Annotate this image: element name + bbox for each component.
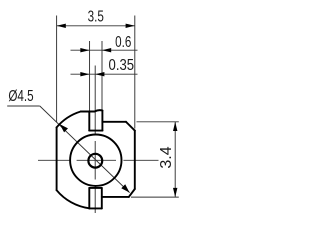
svg-text:0.35: 0.35 (109, 57, 135, 74)
svg-text:3.5: 3.5 (88, 7, 104, 25)
svg-text:Ø4.5: Ø4.5 (8, 86, 33, 104)
svg-text:0.6: 0.6 (115, 32, 131, 50)
svg-text:3.4: 3.4 (158, 146, 175, 168)
